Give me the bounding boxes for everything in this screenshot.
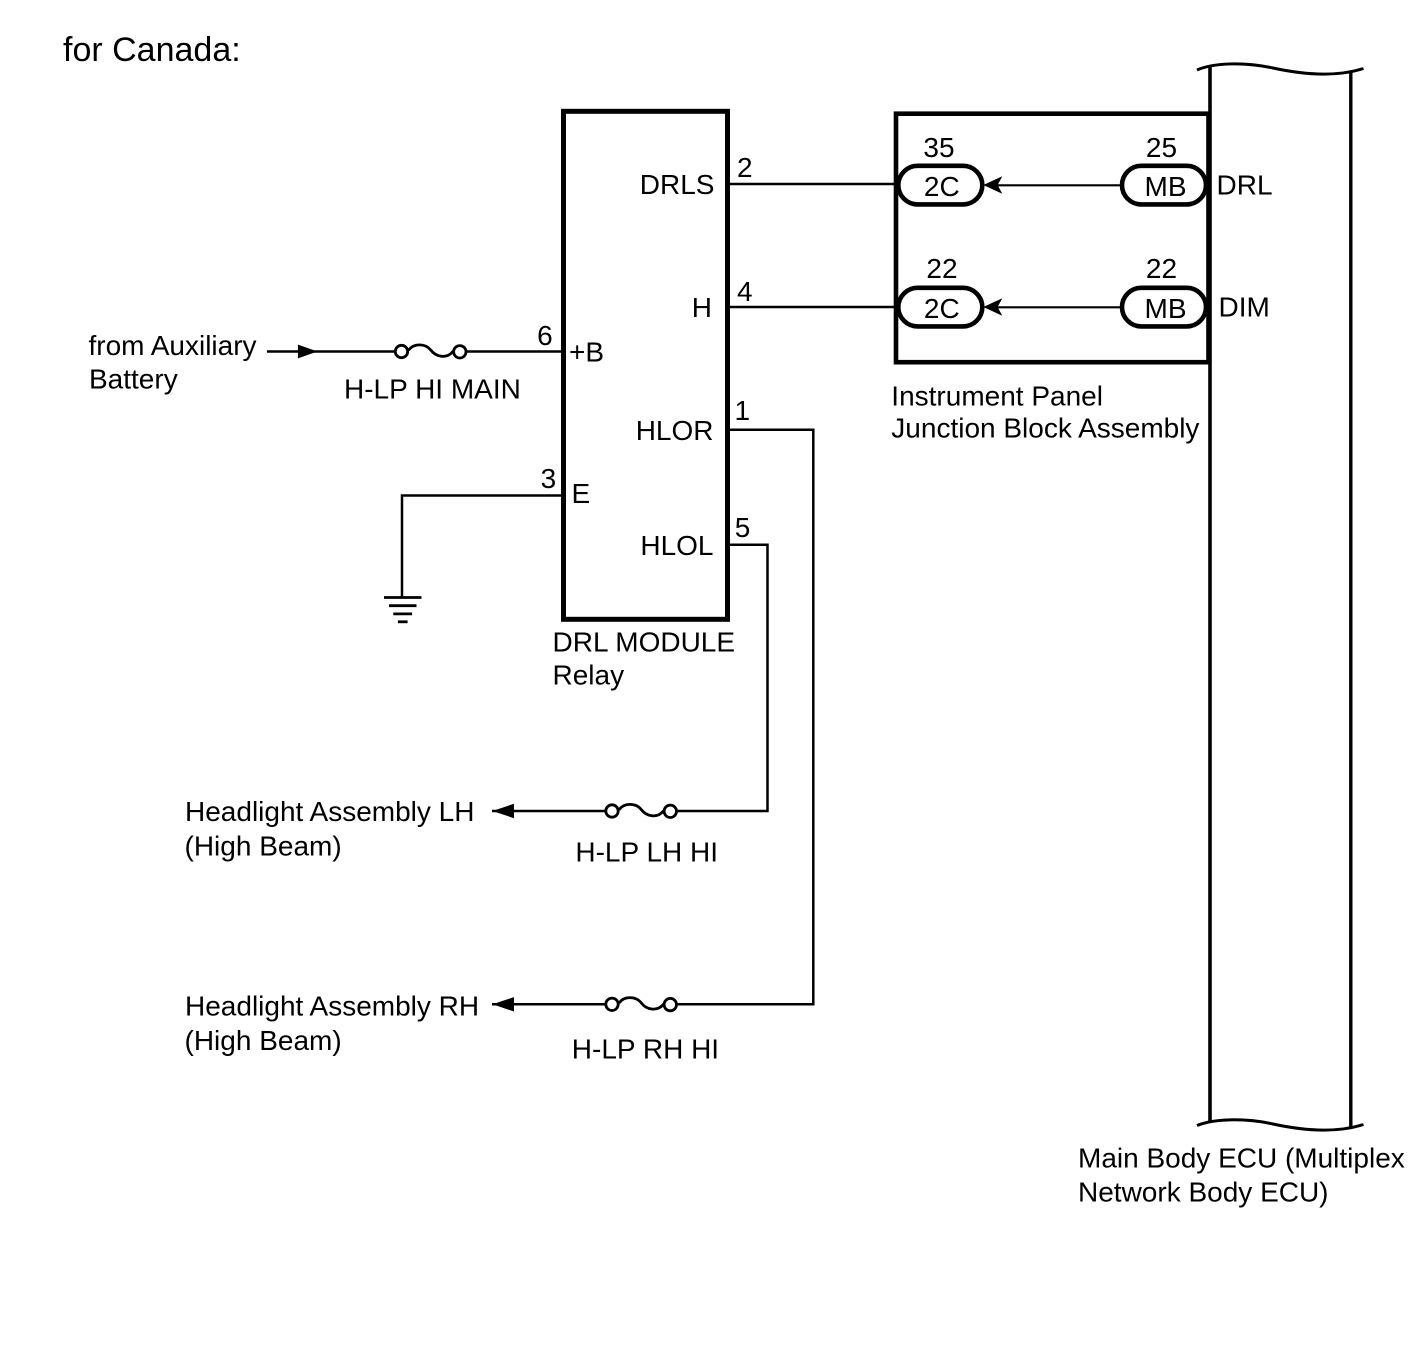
- svg-text:Junction Block Assembly: Junction Block Assembly: [891, 412, 1199, 443]
- svg-text:1: 1: [735, 395, 751, 426]
- ground symbol line 4: [398, 620, 408, 623]
- Main Body ECU bottom wavy edge: [1197, 1120, 1364, 1130]
- fuse H-LP HI MAIN left circle: [395, 345, 407, 357]
- svg-text:DRL MODULE: DRL MODULE: [553, 627, 736, 658]
- fuse H-LP RH HI left circle: [606, 998, 618, 1010]
- svg-text:(High Beam): (High Beam): [185, 830, 342, 861]
- connector arrow into 2C row 1: [983, 176, 1002, 193]
- ground symbol line 2: [389, 604, 417, 607]
- DRL module relay box: [564, 111, 728, 619]
- svg-text:+B: +B: [569, 337, 604, 368]
- svg-text:22: 22: [926, 253, 957, 284]
- wire: 2C to MB row 1: [997, 184, 1121, 186]
- Main Body ECU top wavy edge: [1197, 64, 1364, 74]
- svg-text:MB: MB: [1145, 171, 1187, 202]
- wire: E pin 3 to ground: [402, 496, 561, 598]
- svg-text:6: 6: [537, 320, 553, 351]
- fuse H-LP RH HI right circle: [664, 998, 676, 1010]
- svg-text:5: 5: [735, 512, 751, 543]
- connector oval MB row 1: [1122, 166, 1206, 205]
- svg-text:Main Body ECU (Multiplex: Main Body ECU (Multiplex: [1078, 1142, 1405, 1173]
- wire: from auxiliary battery to fuse: [267, 350, 395, 353]
- svg-text:H-LP HI MAIN: H-LP HI MAIN: [344, 374, 521, 405]
- connector arrow into 2C row 2: [983, 298, 1002, 315]
- svg-text:4: 4: [737, 276, 753, 307]
- arrow left-pointing to Headlight RH: [493, 997, 515, 1011]
- fuse H-LP RH HI wave element: [619, 998, 664, 1009]
- svg-text:from Auxiliary: from Auxiliary: [89, 330, 257, 361]
- svg-text:HLOR: HLOR: [636, 415, 714, 446]
- wire: RH fuse to arrow: [492, 1003, 606, 1006]
- ground symbol line 1: [384, 596, 422, 599]
- svg-text:H-LP RH HI: H-LP RH HI: [572, 1033, 719, 1064]
- Main Body ECU right edge: [1349, 71, 1352, 1129]
- connector oval MB row 2: [1122, 288, 1206, 327]
- svg-text:3: 3: [541, 463, 557, 494]
- svg-text:DRL: DRL: [1217, 170, 1273, 201]
- svg-text:HLOL: HLOL: [640, 530, 713, 561]
- fuse H-LP HI MAIN right circle: [454, 346, 466, 358]
- arrow right-pointing on battery feed: [298, 345, 318, 359]
- wire: HLOR pin 1 down to headlight RH row: [677, 430, 813, 1005]
- svg-text:2C: 2C: [924, 293, 960, 324]
- svg-text:DIM: DIM: [1219, 292, 1270, 323]
- svg-text:Relay: Relay: [553, 660, 625, 691]
- connector oval 2C row 2: [898, 288, 982, 327]
- svg-text:for Canada:: for Canada:: [63, 31, 241, 69]
- svg-text:Headlight Assembly RH: Headlight Assembly RH: [185, 991, 479, 1022]
- wire: H pin 4 to connector 2C: [730, 306, 900, 309]
- svg-text:DRLS: DRLS: [640, 169, 715, 200]
- svg-text:35: 35: [923, 132, 954, 163]
- fuse H-LP LH HI right circle: [664, 805, 676, 817]
- svg-text:E: E: [572, 478, 591, 509]
- svg-text:25: 25: [1146, 132, 1177, 163]
- fuse H-LP LH HI wave element: [619, 804, 664, 815]
- svg-text:2: 2: [737, 152, 753, 183]
- svg-text:H: H: [692, 292, 712, 323]
- svg-text:22: 22: [1146, 253, 1177, 284]
- fuse H-LP HI MAIN wave element: [409, 345, 454, 356]
- connector oval 2C row 1: [898, 166, 982, 205]
- arrow left-pointing to Headlight LH: [493, 804, 515, 818]
- svg-text:MB: MB: [1145, 293, 1187, 324]
- wire: 2C to MB row 2: [997, 306, 1121, 308]
- svg-text:Battery: Battery: [89, 364, 178, 395]
- wire: LH fuse to arrow: [492, 810, 606, 813]
- svg-text:Network Body ECU): Network Body ECU): [1078, 1177, 1329, 1208]
- svg-text:Instrument Panel: Instrument Panel: [891, 380, 1103, 411]
- Main Body ECU left edge: [1208, 66, 1212, 1122]
- svg-text:2C: 2C: [924, 171, 960, 202]
- junction block: Instrument Panel Junction Block Assembly box: [896, 114, 1209, 363]
- svg-text:Headlight Assembly LH: Headlight Assembly LH: [185, 796, 474, 827]
- fuse H-LP LH HI left circle: [606, 805, 618, 817]
- wire: DRLS pin 2 to connector 2C: [730, 183, 900, 186]
- svg-text:H-LP LH HI: H-LP LH HI: [575, 836, 718, 867]
- ground symbol line 3: [393, 613, 412, 616]
- svg-text:(High Beam): (High Beam): [185, 1025, 342, 1056]
- wire: fuse to +B pin 6: [467, 350, 562, 353]
- wire: HLOL pin 5 down to headlight LH row: [677, 545, 768, 811]
